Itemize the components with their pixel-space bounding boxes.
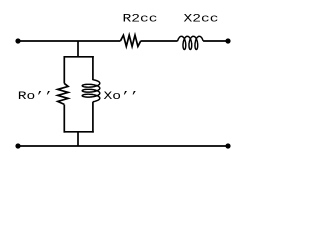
wire: junction stub from top rail down to parallel branch — [77, 41, 79, 57]
wire: bottom edge of parallel branch — [64, 131, 94, 133]
svg-text:R2cc: R2cc — [123, 12, 158, 25]
wire: left branch lower lead — [63, 105, 65, 133]
resistor Ro'' — [58, 83, 68, 104]
node: bottom-right terminal — [225, 143, 230, 148]
wire: bottom rail — [18, 145, 228, 147]
node: bottom-left terminal — [15, 143, 20, 148]
wire: top rail between R2cc and X2cc — [141, 40, 178, 42]
node: top-right terminal — [225, 38, 230, 43]
wire: right branch upper lead — [92, 56, 94, 80]
inductor Xo'' — [82, 80, 100, 102]
wire: junction stub from parallel branch down to bottom rail — [77, 132, 79, 146]
wire: top rail from X2cc to right terminal — [203, 40, 228, 42]
inductor X2cc — [178, 36, 204, 49]
wire: top edge of parallel branch — [64, 56, 94, 58]
wire: left branch upper lead — [63, 56, 65, 84]
svg-text:Ro’’: Ro’’ — [18, 89, 53, 102]
svg-text:Xo’’: Xo’’ — [104, 89, 139, 102]
node: top-left terminal — [15, 38, 20, 43]
wire: right branch lower lead — [92, 102, 94, 133]
wire: top rail from left terminal to resistor R2cc — [18, 40, 121, 42]
resistor R2cc — [121, 35, 141, 46]
svg-text:X2cc: X2cc — [184, 12, 219, 25]
